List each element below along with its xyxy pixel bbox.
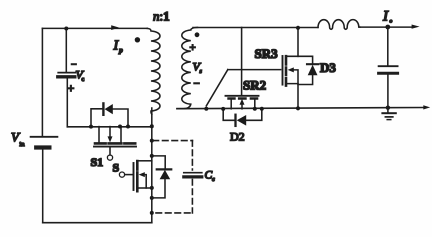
wire bottom rail (left circuit) [43,222,152,224]
wire left vertical (source to top rail) [41,28,43,136]
node junction S source [150,186,154,190]
node junction SR3 top [296,26,300,30]
wire top-left horizontal [42,27,147,29]
node junction diode bottom [150,196,154,200]
svg-text:in: in [20,141,26,148]
svg-text:I: I [382,9,389,25]
transistor S (auxiliary switch) [119,161,151,191]
wire top rail (secondary side) [193,27,318,29]
node junction dashed top [150,139,154,143]
svg-text:+: + [190,42,196,54]
wire secondary bottom rail [177,108,425,109]
node junction ground [386,106,390,110]
diode D3 [298,56,318,84]
wire diode bottom [152,179,165,198]
node junction clamp wire [150,124,154,128]
svg-text:SR2: SR2 [243,78,266,93]
inductor L (output filter) [318,20,360,30]
svg-text:D2: D2 [230,130,245,144]
node junction SR2 right [253,107,257,111]
wire clamp branch lower [66,79,68,127]
dashed box (clamp cell) [153,141,192,213]
wire main vertical (primary bottom / clamp) [151,108,153,223]
transformer T secondary winding [177,27,198,108]
svg-text:c: c [82,77,85,83]
svg-text:S1: S1 [91,155,104,169]
arrow rail end [423,105,430,109]
node junction D2 right [260,107,264,111]
svg-text:−: − [194,78,200,90]
svg-text:p: p [118,46,123,55]
node primary dot (polarity) [135,37,140,42]
wire SR2 gate feed vertical [241,28,243,96]
wire inductor to output node [360,26,413,28]
transformer T primary winding [147,28,160,114]
arrow current Ip [111,25,119,30]
ground [382,109,395,120]
diode D of S1 [103,103,112,114]
node junction clamp cap top [64,27,68,31]
svg-text:n:1: n:1 [153,9,170,24]
wire output cap lower [387,75,389,108]
svg-text:o: o [390,19,393,25]
transistor SR3 [283,28,299,109]
capacitor Vc (clamp) [58,73,76,77]
wire diagonal (SR2 gate net) [206,70,228,106]
diode loop of S1 (left leg) [91,109,103,127]
transistor SR2 [226,96,259,109]
svg-text:SR3: SR3 [255,46,279,61]
node junction D2 left [221,107,225,111]
wire clamp branch upper [65,28,67,71]
diode of clamp (body diode of S) [157,169,171,179]
svg-text:D3: D3 [320,60,336,75]
svg-text:c: c [212,177,215,183]
diode D2 [223,109,262,126]
capacitor Co (output) [379,66,398,73]
node junction dashed bottom [150,211,154,215]
wire clamp to S1 node [67,126,152,128]
transistor S1 [94,127,136,161]
node secondary dot (polarity) [195,32,200,37]
wire output cap upper [387,27,389,66]
arrow output current [412,25,420,29]
node junction diagonal-rail [204,107,208,111]
node junction S drain [150,154,154,158]
node junction S1 mid [118,125,122,129]
node junction S1 right [126,125,130,129]
diode loop of S1 (right leg) [113,109,128,126]
battery Vin [31,137,58,148]
wire battery to bottom rail [42,150,44,223]
capacitor Cc [184,173,202,177]
node junction SR3 bottom [296,106,300,110]
svg-text:S: S [113,161,120,175]
node junction output [385,25,390,30]
node junction S1 left [89,125,93,129]
wire gate horizontal [228,69,281,71]
wire S drain node to diode [152,156,165,169]
svg-text:s: s [200,69,203,75]
svg-text:+: + [68,81,75,95]
